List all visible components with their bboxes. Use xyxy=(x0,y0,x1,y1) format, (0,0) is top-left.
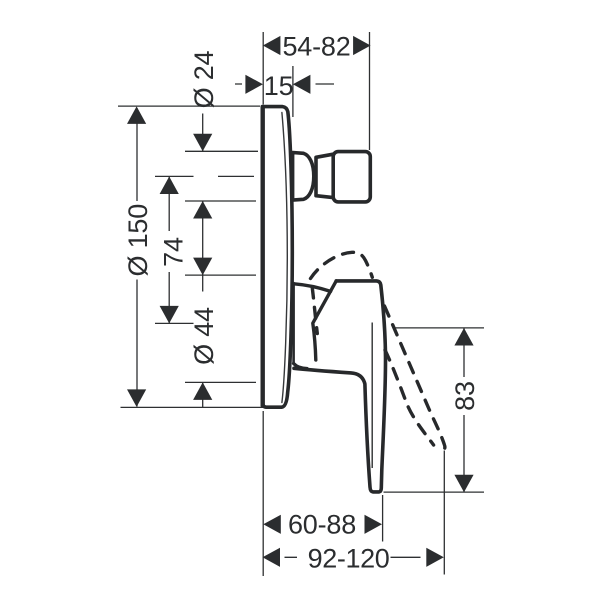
arrow 15 left (outside) xyxy=(245,75,263,94)
extension tick dia44 bottom xyxy=(185,381,256,383)
lever blade crease line xyxy=(371,323,373,469)
extension line x=293 for 15 xyxy=(292,66,294,117)
arrow 92-120 right xyxy=(426,548,444,567)
dashed raised lever outer edge xyxy=(311,252,373,278)
arrow dia44 top xyxy=(193,258,212,276)
extension line dia150 bottom xyxy=(121,406,279,408)
arrow 92-120 left xyxy=(263,548,281,567)
plate inner face line (thin) xyxy=(282,113,287,403)
dashed raised lever outer edge lower part xyxy=(385,306,445,451)
extension line left bottom x=263 xyxy=(262,411,264,576)
svg-text:54-82: 54-82 xyxy=(282,31,350,61)
svg-text:60-88: 60-88 xyxy=(288,509,356,539)
lever back chamfer edge xyxy=(313,281,336,360)
arrow 74 bottom xyxy=(160,306,179,324)
extension tick 83 bottom xyxy=(384,491,485,493)
dimension line dia44 vertical xyxy=(202,382,204,407)
extension tick dia44 top xyxy=(185,274,256,276)
extension line dia150 top tick xyxy=(118,105,260,107)
dimension line 15 stubs xyxy=(235,83,334,85)
arrow 60-88 left xyxy=(263,515,281,534)
svg-text:15: 15 xyxy=(264,71,294,101)
plate back edge (thick) xyxy=(261,108,265,406)
lever hub back edge xyxy=(292,283,295,364)
arrow 83 bottom xyxy=(454,475,473,493)
dimension line dia24 vertical xyxy=(202,114,204,292)
arrow 60-88 right xyxy=(365,515,383,534)
dashed raised lever inner edge xyxy=(385,350,434,445)
dimension line dia150 vertical xyxy=(136,108,138,407)
extension line x=369.5 for 54-82 xyxy=(369,32,371,150)
lever hub top curve xyxy=(294,284,331,292)
extension tick dia24 top xyxy=(185,150,258,152)
extension line lever tip x=382 xyxy=(382,495,384,542)
dashed raised lever back edge xyxy=(312,287,317,334)
svg-text:74: 74 xyxy=(158,237,188,267)
arrow dia150 bottom xyxy=(127,389,146,407)
arrow 74 top xyxy=(160,177,179,195)
lever hub bottom curve xyxy=(294,364,307,369)
extension tick 74 bottom xyxy=(155,322,194,324)
dimension line 92-120 stubs xyxy=(285,556,421,558)
arrow 15 right (outside) xyxy=(293,75,311,94)
diverter knob end cap xyxy=(333,152,370,202)
diverter knob stem xyxy=(316,154,333,197)
arrow dia150 top xyxy=(127,106,146,124)
extension tick dia24 bottom xyxy=(185,200,256,202)
escutcheon plate outline (side view) xyxy=(262,107,292,408)
arrow dia24 bottom xyxy=(193,201,212,219)
extension tick 83 top xyxy=(394,327,485,329)
svg-text:Ø 44: Ø 44 xyxy=(189,307,219,365)
svg-text:Ø 24: Ø 24 xyxy=(189,50,219,108)
arrow 83 top xyxy=(454,328,473,346)
arrow 54-82 right xyxy=(353,36,371,55)
arrow dia44 bottom xyxy=(193,382,212,400)
dimension line 83 vertical xyxy=(463,328,465,492)
extension tick 74 top xyxy=(155,175,254,177)
svg-text:83: 83 xyxy=(450,381,480,411)
lever handle outline xyxy=(294,281,386,492)
arrow dia24 top xyxy=(193,134,212,152)
extension line dashed-tip x=443 xyxy=(443,451,445,575)
dimension line 74 vertical xyxy=(168,177,170,323)
svg-text:92-120: 92-120 xyxy=(308,543,390,573)
arrow 54-82 left xyxy=(263,36,281,55)
svg-text:Ø 150: Ø 150 xyxy=(123,204,153,277)
extension line left (wall plane x=263) top xyxy=(262,32,264,105)
diverter knob dome xyxy=(293,153,314,201)
